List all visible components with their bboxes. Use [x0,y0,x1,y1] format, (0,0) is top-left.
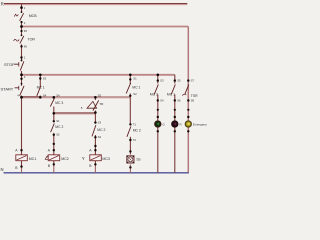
svg-text:STOP: STOP [4,62,15,67]
svg-text:S4: S4 [43,94,47,98]
junction MC1aux bottom on node-A line [129,92,137,97]
junction lamp3 S7 [187,79,194,83]
wire left chain vertical x21.5 [21,4,23,173]
svg-text:S4: S4 [160,99,164,103]
lamp green (star running) [155,121,166,127]
overload relay TOR [14,34,36,43]
junction TR coil top [129,150,131,152]
svg-text:S7: S7 [191,79,195,83]
junction self-hold bottom S4 [39,94,47,99]
wire TR-coil branch x130.4 [129,97,131,173]
coil MC3 (star) [82,155,110,161]
svg-text:S6: S6 [177,99,181,103]
junction MCB bottom [20,21,25,25]
coil MC2 (delta) [45,155,69,161]
svg-text:MC2: MC2 [61,157,69,161]
wire red-lamp branch x174.8 [174,75,176,173]
junction branch2 top S4 [53,94,61,99]
pushbutton START (NO) [1,83,25,96]
junction MC1aux S1 [129,77,137,81]
svg-text:S3: S3 [43,77,47,81]
junction branch3 S4b [94,135,101,147]
junction branch3 top on node-A line [94,94,101,99]
wire MC3-coil branch x95.4 [94,97,96,173]
junction coil MC3 A [89,149,96,153]
svg-text:START: START [1,86,14,91]
svg-text:S3: S3 [160,79,164,83]
junction self-hold terminal S3 [39,77,47,81]
wire node-A horizontal line y97 [22,97,131,98]
svg-text:95: 95 [24,29,28,33]
junction branch2 S2 [53,133,60,145]
svg-text:Y: Y [82,156,85,161]
junction TR coil bottom [129,166,131,168]
wire bus1 R-phase top horizontal [4,4,187,5]
wire green-lamp branch x157.8 [157,75,159,173]
junction lamp1 bottom terminal [157,130,159,132]
wire L5 horizontal link y113 [54,113,96,114]
svg-text:MC 2: MC 2 [97,128,105,132]
junction self-hold top [39,74,42,77]
svg-text:MC 2: MC 2 [55,125,63,129]
wire bottom neutral bus [4,172,189,174]
junction node-A left [17,93,23,98]
lamp red (run) [172,121,183,127]
junction branch2 S1 [53,119,60,123]
svg-text:S8: S8 [191,99,195,103]
svg-text:S1: S1 [56,119,60,123]
wire right rail vertical from bus2 [187,27,189,173]
junction MC1aux bus3 tap [129,74,132,77]
junction MCB top [20,6,26,10]
svg-text:T1: T1 [133,122,137,126]
svg-text:96: 96 [24,45,28,49]
junction coil MC1 A [15,149,22,153]
svg-text:S1: S1 [133,77,137,81]
junction lamp1 bus3 tap [157,74,160,77]
contact MC1 aux blade for red lamp [167,84,175,96]
svg-text:N: N [1,167,4,172]
contact MC1 self-hold branch wire x40.3 [39,75,41,98]
junction lamp1 top terminal [157,109,159,119]
svg-text:S4: S4 [98,135,102,139]
svg-text:S4: S4 [56,94,60,98]
contact MC1 aux blade [126,83,140,94]
junction TOR bottom [20,45,27,49]
svg-text:S2: S2 [133,92,137,96]
svg-text:S5: S5 [177,79,181,83]
svg-text:MC 2: MC 2 [133,128,141,132]
junction coil MC3 B [89,163,96,168]
contact TSR timer blade for yellow lamp [182,84,198,97]
svg-text:S3: S3 [98,121,102,125]
junction lamp2 top terminal [174,109,176,119]
svg-text:R: R [1,1,4,6]
svg-text:MC3: MC3 [102,157,110,161]
junction bus3 tap [20,73,23,76]
contact MC2 interlock blade on branch3 [92,125,106,136]
svg-text:Emergenza: Emergenza [193,123,207,127]
pushbutton STOP (NC) [4,59,24,70]
node N neutral label [1,167,4,172]
contact MC3 interlock blade [50,98,63,106]
svg-text:TOR: TOR [28,37,36,41]
junction lamp3 top terminal [187,109,189,119]
wire bus2 horizontal after MCB [22,26,189,28]
contact MC1 self-hold blade [37,86,45,96]
node R phase label [1,1,4,6]
svg-text:TR: TR [136,158,141,162]
junction bus2 tap [20,25,23,28]
junction coil MC1 B [15,165,22,169]
coil MC1 (main) [16,155,37,161]
junction TR branch T1 [129,122,136,126]
junction coil MC2 B [48,163,55,168]
svg-text:T2: T2 [133,138,137,142]
junction STOP top [20,56,26,60]
junction lamp3 bottom terminal [187,130,189,132]
junction lamp3 S8 [187,99,194,103]
svg-text:MC1: MC1 [29,157,37,161]
contact TSR delayed NC (triangle) [81,100,104,110]
svg-text:MC 1: MC 1 [167,92,175,96]
junction TOR top [20,29,27,33]
svg-text:MCB: MCB [29,14,38,18]
junction branch2 on L5 [53,112,56,115]
contact MC3 aux blade for green lamp [150,84,159,96]
junction lamp2 S6 [174,99,181,103]
svg-text:MC 1: MC 1 [37,86,45,90]
svg-text:MC 3: MC 3 [55,101,63,105]
junction coil MC2 A [48,149,55,153]
contact MC2 aux blade on branch2 [51,123,64,132]
svg-text:TSR: TSR [191,94,198,98]
svg-text:MC 3: MC 3 [150,92,158,96]
junction branch3 S3 [94,121,101,125]
junction lamp2 S5 [174,79,181,83]
svg-text:MC 1: MC 1 [132,85,140,89]
junction lamp2 bottom terminal [174,130,176,132]
contact MC1 aux to node-A wire x131 [129,75,131,98]
wire MC2-coil branch x53.8 [53,97,55,173]
svg-text:S5: S5 [98,94,102,98]
svg-text:S2: S2 [56,133,60,137]
lamp yellow emergency [185,121,208,127]
wire bus3 horizontal after STOP [22,74,175,76]
breaker MCB [14,11,37,21]
junction lamp1 S3 [157,79,164,83]
junction TR branch T2 [129,138,136,142]
junction lamp1 S4 [157,99,164,103]
timer coil TR [127,156,141,164]
junction branch3 on L5 [94,111,97,114]
contact MC2 cutoff blade on TR branch [127,126,141,136]
junction START top [20,75,26,80]
